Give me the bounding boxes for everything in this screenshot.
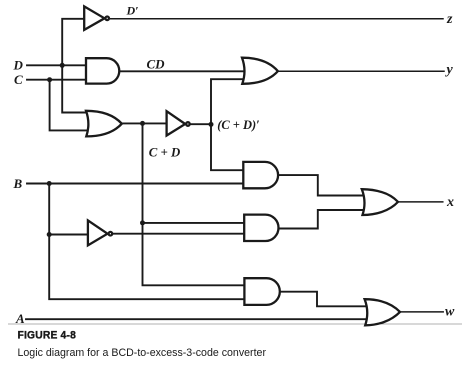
svg-text:(C + D)′: (C + D)′ <box>217 118 260 132</box>
wire C net riser to OR G3 <box>50 80 91 131</box>
wire B input line <box>27 183 246 185</box>
svg-text:FIGURE 4-8: FIGURE 4-8 <box>18 329 77 341</box>
wire G7 output to OR G9 top input <box>280 292 368 307</box>
inverter U4 (B') <box>88 220 108 245</box>
wire C+D branch to AND G6 top input <box>143 222 248 224</box>
svg-text:B: B <box>13 176 23 191</box>
node C+D lower junction <box>140 220 145 225</box>
svg-text:CD: CD <box>147 57 166 72</box>
wire (C+D)' net riser to OR G5 and AND G4 <box>211 79 247 170</box>
svg-text:C: C <box>14 72 23 87</box>
wire D net riser to NOT U1 and OR G3 <box>62 19 91 113</box>
wire G3 output to NOT U2 <box>122 122 166 124</box>
svg-text:Logic diagram for a BCD-to-exc: Logic diagram for a BCD-to-excess-3-code… <box>18 347 267 359</box>
AND gate G6 (B'(C+D)) <box>244 215 278 241</box>
node C junction <box>47 77 52 82</box>
inverter U1 (z = D') <box>84 6 104 30</box>
svg-text:C + D: C + D <box>149 145 181 159</box>
node B junction <box>47 181 52 186</box>
AND gate G7 (B(C+D)) <box>244 278 279 305</box>
wire D input line <box>27 64 88 66</box>
faint figure rule <box>8 323 462 325</box>
wire G6 output to OR G8 bottom input <box>278 210 366 229</box>
wire G8 output to x <box>398 201 443 203</box>
wire U1 output to z <box>109 18 443 20</box>
wire G5 output to y <box>278 70 445 72</box>
wire G4 output to OR G8 top input <box>278 175 366 195</box>
node D junction <box>60 63 65 68</box>
svg-text:w: w <box>445 305 455 320</box>
node B inverter tap junction <box>47 232 52 237</box>
wire U2 output to (C+D)' node <box>190 123 211 125</box>
OR gate G8 (x) <box>362 189 398 215</box>
wire A input line <box>26 318 371 320</box>
wire G2 output CD to OR G5 <box>119 70 246 72</box>
AND gate G4 (B(C+D)') <box>243 162 278 188</box>
svg-text:D′: D′ <box>126 4 139 18</box>
wire C input line <box>27 79 88 81</box>
OR gate G5 (y) <box>242 58 278 84</box>
node (C+D)' junction <box>209 122 214 127</box>
wire B net riser to NOT U4 and AND G7 <box>49 184 247 300</box>
inverter U2 ((C+D)') <box>167 111 186 135</box>
svg-text:x: x <box>446 195 454 210</box>
node C+D junction <box>140 121 145 126</box>
OR gate G3 (C+D) <box>86 111 122 137</box>
svg-text:z: z <box>446 12 453 27</box>
wire C+D net vertical to AND G7 <box>143 123 248 285</box>
wire G9 output to w <box>400 311 443 313</box>
wire U4 output B' to AND G6 <box>112 233 247 235</box>
svg-text:y: y <box>445 63 454 78</box>
svg-text:A: A <box>15 311 25 326</box>
svg-text:D: D <box>13 58 24 73</box>
AND gate G2 (CD) <box>86 58 119 83</box>
wire B branch to NOT U4 input <box>49 234 88 236</box>
OR gate G9 (w) <box>365 299 400 325</box>
